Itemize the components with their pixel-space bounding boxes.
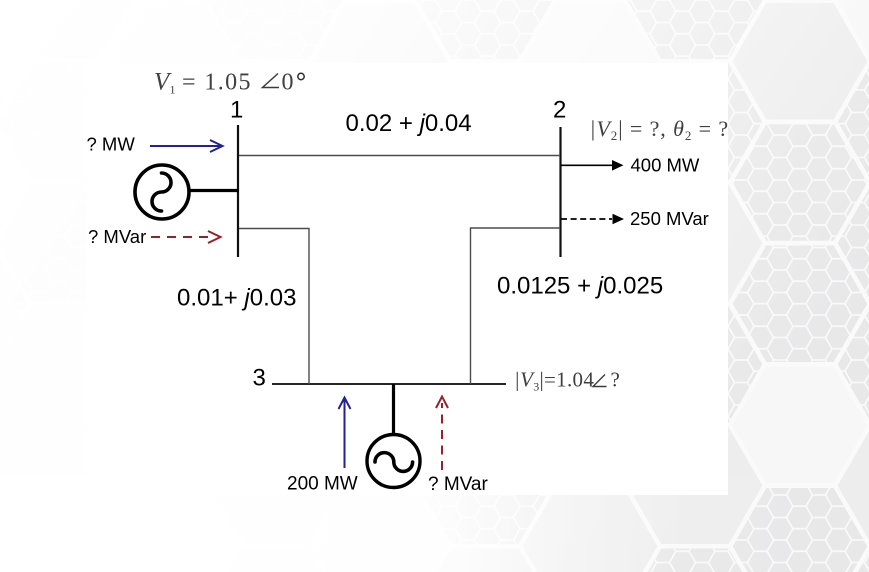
wire line 1-2 xyxy=(239,155,560,157)
arrow Q3 red dashed up xyxy=(436,397,448,471)
arrow Q1 red dashed xyxy=(151,231,221,243)
svg-text:|V2| = ?, θ2 = ?: |V2| = ?, θ2 = ? xyxy=(590,116,730,143)
svg-text:0: 0 xyxy=(282,70,294,96)
load arrow 250 MVar dashed xyxy=(561,214,624,225)
svg-text:?: ? xyxy=(611,368,620,392)
svg-text:0.0125 + j0.025: 0.0125 + j0.025 xyxy=(497,273,663,300)
svg-text:400 MW: 400 MW xyxy=(631,155,700,176)
label V1 = 1.05 angle 0deg xyxy=(154,69,304,97)
generator G1 stub wire xyxy=(188,189,239,192)
arrow P1 blue xyxy=(150,140,223,152)
label V3 magnitude xyxy=(514,368,620,394)
wire line 1-3 xyxy=(239,229,309,385)
wire line 2-3 xyxy=(471,228,561,384)
svg-text:200 MW: 200 MW xyxy=(287,474,358,495)
svg-text:0.02 + j0.04: 0.02 + j0.04 xyxy=(346,110,472,137)
generator G3 stub wire xyxy=(392,384,395,436)
bus 2 bar xyxy=(559,127,561,257)
bus 3 bar xyxy=(272,383,506,385)
svg-text:250 MVar: 250 MVar xyxy=(630,208,709,229)
svg-text:? MW: ? MW xyxy=(87,134,136,155)
svg-text:= 1.05: = 1.05 xyxy=(182,70,252,96)
bus 1 bar xyxy=(237,125,239,257)
svg-text:0.01+ j0.03: 0.01+ j0.03 xyxy=(177,285,296,312)
white diagram panel xyxy=(87,63,728,495)
arrow P3 blue up xyxy=(339,398,351,469)
svg-text:2: 2 xyxy=(553,97,566,124)
svg-text:? MVar: ? MVar xyxy=(428,474,489,495)
generator G3 circle xyxy=(367,435,420,488)
svg-text:1: 1 xyxy=(230,97,243,124)
svg-text:3: 3 xyxy=(253,365,266,392)
generator G1 sine glyph xyxy=(152,173,171,211)
svg-text:? MVar: ? MVar xyxy=(88,226,146,247)
svg-text:1: 1 xyxy=(170,83,176,97)
svg-text:|V3|=1.04: |V3|=1.04 xyxy=(514,368,594,394)
generator G3 sine glyph xyxy=(375,453,413,472)
generator G1 circle xyxy=(135,165,189,219)
load arrow 400 MW xyxy=(561,160,624,171)
